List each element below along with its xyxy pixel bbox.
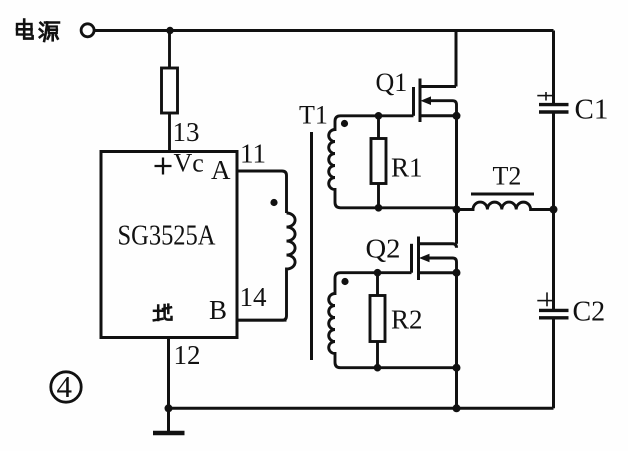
svg-text:A: A [211,155,231,185]
node bottom rail junction [453,404,461,412]
inductor T2 [457,202,554,209]
node R1 bottom junction [375,204,383,212]
svg-text:R2: R2 [391,305,423,335]
wire bottom rail [169,407,554,410]
node Q2 source junction [453,269,461,277]
ground [153,431,185,436]
wire right rail top (to C1) [552,31,555,104]
svg-text:Q2: Q2 [366,234,401,264]
capacitor C1 [537,92,568,112]
node R2 bottom junction [374,364,382,372]
resistor R2 [370,273,385,368]
capacitor C1 label [575,94,609,126]
transistor Q2 MOSFET [412,237,457,281]
node R1 top junction [375,112,383,120]
resistor R1 [371,116,386,208]
svg-text:Vc: Vc [174,149,204,178]
IC name SG3525A [118,220,216,252]
capacitor C2 label [573,297,606,328]
figure number 4 in circle [51,369,81,404]
node T2 right junction [550,206,558,214]
wire right rail bottom (C2 to bottom rail) [552,320,555,409]
svg-text:11: 11 [240,139,266,169]
pin 11 label [240,139,266,169]
node ground junction [165,404,173,412]
transformer T1 label [299,101,328,130]
transformer T1 primary winding [237,213,295,320]
node upper secondary polarity dot [341,120,348,127]
node primary polarity dot [270,199,277,206]
wire right rail middle (C1 to C2) [552,114,555,310]
svg-text:SG3525A: SG3525A [118,220,216,252]
wire Q1 drain to top rail [455,31,458,87]
pin A label [211,155,231,185]
svg-text:14: 14 [240,282,268,312]
node Q1 source junction [453,112,461,120]
svg-text:B: B [209,295,227,325]
svg-text:C1: C1 [575,94,609,126]
svg-text:T1: T1 [299,101,328,130]
wire IC pin B to T1 primary bottom [237,319,287,322]
resistor R2 label [391,305,423,335]
pin 14 label [240,282,268,312]
node top junction [166,27,173,34]
svg-text:13: 13 [173,117,200,147]
wire IC pin A to T1 primary [237,171,287,213]
wire T2 node down to Q2 drain [455,210,458,244]
input terminal (power) [81,24,94,37]
svg-text:12: 12 [174,340,201,370]
transformer T1 lower secondary winding [329,273,457,368]
svg-text:R1: R1 [391,153,423,183]
node lower secondary polarity dot [341,278,348,285]
capacitor C2 [537,292,568,317]
pin 13 label [173,117,200,147]
wire resistor to IC pin 13 [168,113,171,152]
transistor Q1 label [376,68,408,97]
pin B label [209,295,227,325]
resistor bias (unlabeled) [162,68,178,113]
inductor T2 label with underline [471,162,534,195]
pin 12 label [174,340,201,370]
wire Q2 source down to bottom rail [455,273,458,409]
node R2 top junction [374,269,382,277]
transistor Q1 MOSFET [414,79,457,123]
transformer T1 core [310,132,313,360]
node lower winding right junction [453,364,461,372]
transformer T1 upper secondary winding [329,116,457,208]
svg-text:T2: T2 [493,162,522,191]
wire junction to resistor [168,31,171,69]
svg-text:C2: C2 [573,297,606,328]
svg-text:4: 4 [57,369,73,404]
svg-text:Q1: Q1 [376,68,408,97]
wire top rail [94,29,554,32]
op-amp U1 SG3525A body [101,152,237,338]
pin 地 (ground) label [154,305,172,321]
pin +Vc label [155,149,204,178]
resistor R1 label [391,153,423,183]
label 电源 [17,20,59,42]
wire Q1 source down to T2 node [455,116,458,210]
node T2 left junction [453,206,461,214]
transistor Q2 label [366,234,401,264]
wire IC pin 12 down [167,338,170,432]
